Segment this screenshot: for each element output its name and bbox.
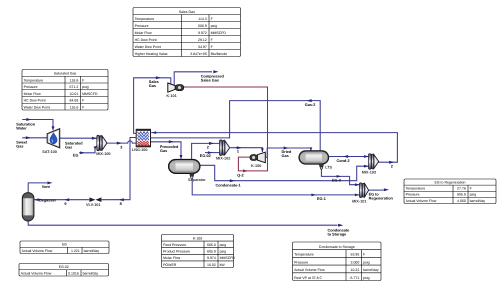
node EG-1 label (317, 197, 326, 201)
svg-text:Vent: Vent (42, 185, 51, 189)
wire: energy stream Q-2 loop K-100 to K-101 (184, 87, 268, 172)
svg-text:psig: psig (220, 243, 226, 247)
svg-text:EG-1: EG-1 (317, 197, 326, 201)
svg-text:Actual Volume Flow: Actual Volume Flow (21, 271, 52, 275)
svg-text:3.000: 3.000 (351, 260, 360, 264)
table EG-02 (19, 264, 109, 277)
svg-text:MIX-101: MIX-101 (352, 200, 366, 204)
svg-text:K-100: K-100 (193, 237, 202, 241)
svg-text:1.221: 1.221 (71, 249, 80, 253)
svg-text:605.9: 605.9 (457, 193, 466, 197)
node Condensate-1 label (216, 183, 241, 187)
table K-100 (162, 235, 236, 268)
wire: Saturated Gas from SAT-100 to MIX-100 (60, 137, 97, 140)
svg-text:Pressure: Pressure (24, 85, 38, 89)
table Condensate to Storage (293, 242, 382, 281)
wire: stream 1 MIX-102 to K-100 (230, 146, 264, 152)
svg-text:2: 2 (391, 164, 393, 168)
node Dried Gas label (282, 150, 292, 158)
table EG (20, 241, 109, 254)
node 1 label (237, 149, 239, 153)
svg-text:Condensate-1: Condensate-1 (216, 183, 241, 187)
node Compressed Sales Gas label (201, 74, 225, 82)
svg-text:Actual Volume Flow: Actual Volume Flow (22, 249, 53, 253)
svg-text:F: F (211, 45, 213, 49)
svg-text:Higher Heating Value: Higher Heating Value (135, 52, 168, 56)
node EG-02 label (200, 154, 211, 158)
node MIX-103 label (362, 170, 376, 174)
svg-text:8: 8 (120, 202, 122, 206)
wire: Gas-2 LTS top to LNG-100 cold inlet (long loop) (151, 99, 321, 150)
svg-text:psig: psig (82, 85, 88, 89)
svg-text:16.02: 16.02 (207, 263, 216, 267)
svg-text:Gas-2: Gas-2 (305, 103, 316, 107)
svg-text:to Storage: to Storage (328, 233, 347, 237)
node Precooled Gas label (160, 145, 179, 153)
svg-text:600.9: 600.9 (198, 24, 207, 28)
svg-text:Temperature: Temperature (24, 78, 44, 82)
wire: Cond-2 LTS to MIX-103 (329, 155, 369, 158)
svg-text:F: F (82, 105, 84, 109)
node MIX-101 label (352, 200, 366, 204)
svg-text:Water Dew Point: Water Dew Point (135, 45, 161, 49)
svg-text:Condensate to Storage: Condensate to Storage (319, 245, 355, 249)
mixer MIX-102 (220, 140, 230, 156)
svg-text:POWER: POWER (163, 263, 177, 267)
node Separator label (188, 178, 206, 182)
svg-text:Product Pressure: Product Pressure (163, 250, 190, 254)
svg-text:3: 3 (120, 146, 122, 150)
svg-text:Feed Pressure: Feed Pressure (163, 243, 186, 247)
svg-text:3.847e+05: 3.847e+05 (190, 52, 207, 56)
node MIX-100 label (96, 152, 110, 156)
svg-text:Saturated Gas: Saturated Gas (54, 72, 77, 76)
separator vessel (Separator) (169, 159, 201, 178)
svg-text:barrel/day: barrel/day (84, 249, 100, 253)
node EG to Regeneration label (369, 192, 394, 200)
node SAT-100 label (42, 150, 57, 154)
svg-text:Gas: Gas (16, 145, 23, 149)
svg-text:Molar Flow: Molar Flow (163, 256, 181, 260)
node K-100 label (251, 164, 261, 168)
wire: Sweet Gas feed stub into SAT-100 (22, 136, 47, 139)
svg-text:2: 2 (207, 145, 209, 149)
svg-text:Degasser: Degasser (39, 198, 57, 202)
svg-text:HC Dew Point: HC Dew Point (24, 99, 46, 103)
wire: stream 2 (mixed condensate) MIX-103 to LNG-100 cold inlet top (151, 131, 397, 164)
svg-text:27.76: 27.76 (457, 187, 466, 191)
svg-text:671.2: 671.2 (70, 85, 79, 89)
svg-text:84.69: 84.69 (70, 99, 79, 103)
svg-text:F: F (363, 253, 365, 257)
svg-text:Pressure: Pressure (406, 193, 420, 197)
svg-text:Gas: Gas (282, 154, 289, 158)
svg-text:Water: Water (16, 127, 27, 131)
svg-text:Q-2: Q-2 (237, 174, 243, 178)
svg-text:9.972: 9.972 (198, 31, 207, 35)
svg-text:Temperature: Temperature (294, 253, 314, 257)
node 3 label (120, 146, 122, 150)
wire: Sales Gas LNG-100 to K-101 (134, 76, 171, 133)
svg-text:9.974: 9.974 (207, 256, 216, 260)
svg-text:10.22: 10.22 (351, 268, 360, 272)
svg-text:MIX-103: MIX-103 (362, 170, 376, 174)
svg-text:F: F (211, 17, 213, 21)
degasser vessel (vertical) (22, 193, 34, 221)
node MIX-102 label (216, 156, 230, 160)
svg-text:barrel/day: barrel/day (470, 199, 486, 203)
svg-text:Actual Volume Flow: Actual Volume Flow (294, 268, 325, 272)
node 8 label (120, 202, 122, 206)
separator vessel LTS (299, 151, 329, 169)
svg-text:Water Dew Point: Water Dew Point (24, 105, 50, 109)
wire: Precooled Gas LNG-100 to Separator (151, 140, 183, 159)
svg-text:605.9: 605.9 (207, 250, 216, 254)
svg-text:116.6: 116.6 (70, 105, 79, 109)
wire: Vent outlet stub from Degasser (28, 181, 52, 192)
node EG label (73, 153, 79, 157)
table Sales Gas (133, 8, 241, 57)
wire: Compressed Sales Gas from K-101 (outlet stub) (174, 70, 218, 85)
svg-text:HC Dew Point: HC Dew Point (135, 38, 157, 42)
svg-text:1: 1 (237, 149, 239, 153)
saturator SAT-100 (47, 129, 60, 148)
wire: EG-3 LTS boot to MIX-101 (321, 168, 359, 187)
wire: stream 2 Separator vapour to MIX-102 (192, 142, 220, 159)
svg-text:Molar Flow: Molar Flow (24, 92, 42, 96)
svg-text:psig: psig (363, 260, 369, 264)
svg-text:psig: psig (220, 250, 226, 254)
svg-text:114.3: 114.3 (198, 17, 207, 21)
node Q-2 label (237, 174, 243, 178)
svg-text:0.1016: 0.1016 (68, 271, 79, 275)
node Gas-2 label (305, 103, 316, 107)
svg-text:barrel/day: barrel/day (83, 271, 99, 275)
svg-text:Pressure: Pressure (135, 24, 149, 28)
svg-text:MMSCFD: MMSCFD (82, 92, 98, 96)
mixer MIX-103 (369, 154, 379, 170)
svg-text:K-101: K-101 (166, 94, 176, 98)
wire: Condensate-1 Separator to MIX-103 (200, 165, 369, 182)
wire: Dried Gas K-100 to LTS (266, 147, 313, 158)
svg-text:Reid VP at 37.8 C: Reid VP at 37.8 C (294, 276, 322, 280)
svg-text:EG-3: EG-3 (332, 178, 341, 182)
node Vent label (42, 185, 51, 189)
svg-text:Temperature: Temperature (406, 187, 426, 191)
svg-text:10.01: 10.01 (70, 92, 79, 96)
node 9 label (64, 202, 66, 206)
svg-text:Molar Flow: Molar Flow (135, 31, 153, 35)
svg-text:MMSCFD: MMSCFD (211, 31, 227, 35)
node LNG-100 label (132, 148, 148, 152)
svg-text:MIX-102: MIX-102 (216, 156, 230, 160)
node Condensate to Storage label (328, 229, 350, 237)
svg-text:Sales Gas: Sales Gas (201, 78, 219, 82)
wire: EG-02 feed stub into MIX-102 (205, 151, 220, 154)
svg-text:psig: psig (211, 24, 217, 28)
svg-text:Pressure: Pressure (294, 260, 308, 264)
heat exchanger LNG-100 (136, 129, 150, 147)
svg-text:kW: kW (220, 263, 226, 267)
node Saturated Gas label (65, 142, 83, 150)
svg-text:34.97: 34.97 (198, 45, 207, 49)
table Saturated Gas (22, 70, 108, 111)
wire: EG feed stub into MIX-100 (79, 146, 97, 154)
svg-text:psig: psig (363, 276, 369, 280)
wire: Saturation Water feed stub into SAT-100 (22, 118, 54, 131)
svg-text:K-100: K-100 (251, 164, 261, 168)
svg-text:Gas: Gas (160, 149, 167, 153)
svg-text:F: F (82, 99, 84, 103)
wire: EG-1 Separator boot to MIX-101 (192, 176, 359, 196)
node Sales Gas label (149, 80, 159, 88)
wire: EG to Regeneration outlet stub from MIX-101 (368, 188, 389, 191)
node 2 label (separator vapour) (207, 145, 209, 149)
svg-text:Btu/lbmole: Btu/lbmole (211, 52, 228, 56)
svg-text:Regeneration: Regeneration (369, 196, 394, 200)
svg-text:LTS: LTS (325, 165, 332, 169)
wire: Condensate to Storage from Degasser bottom (28, 221, 343, 227)
svg-text:666.0: 666.0 (207, 243, 216, 247)
node 2 label at MIX-103 outlet (391, 164, 393, 168)
svg-text:Sales Gas: Sales Gas (179, 10, 195, 14)
svg-text:EG: EG (73, 153, 79, 157)
svg-text:29.12: 29.12 (198, 38, 207, 42)
svg-text:SAT-100: SAT-100 (42, 150, 57, 154)
svg-text:F: F (470, 187, 472, 191)
svg-text:F: F (82, 78, 84, 82)
svg-text:116.6: 116.6 (70, 78, 79, 82)
svg-text:Cond-2: Cond-2 (337, 159, 350, 163)
svg-text:Gas: Gas (149, 84, 156, 88)
svg-text:VLV-101: VLV-101 (86, 203, 101, 207)
node EG-3 label (332, 178, 341, 182)
node Sweet Gas label (16, 141, 28, 149)
svg-text:EG-02: EG-02 (200, 154, 211, 158)
svg-text:Gas: Gas (65, 146, 72, 150)
node Degasser label (39, 198, 57, 202)
svg-text:-5.771: -5.771 (349, 276, 359, 280)
node LTS label (325, 165, 332, 169)
wire: stream 3 MIX-100 to LNG-100 hot inlet (107, 141, 136, 145)
node K-101 label (166, 94, 176, 98)
svg-text:9: 9 (64, 202, 66, 206)
svg-text:Actual Volume Flow: Actual Volume Flow (406, 199, 437, 203)
svg-text:barrel/day: barrel/day (363, 268, 379, 272)
node Cond-2 label (337, 159, 350, 163)
svg-text:LNG-100: LNG-100 (132, 148, 148, 152)
node VLV-101 label (86, 203, 101, 207)
svg-text:Temperature: Temperature (135, 17, 155, 21)
svg-text:63.95: 63.95 (351, 253, 360, 257)
expander K-100 (250, 152, 265, 163)
svg-text:Separator: Separator (188, 178, 206, 182)
compressor K-101 (168, 83, 184, 92)
svg-text:MMSCFD: MMSCFD (220, 256, 236, 260)
svg-text:EG-02: EG-02 (59, 265, 69, 269)
svg-text:F: F (211, 38, 213, 42)
svg-text:4.660: 4.660 (457, 199, 466, 203)
svg-text:EG to Regeneration: EG to Regeneration (435, 181, 466, 185)
svg-text:psig: psig (470, 193, 476, 197)
mixer MIX-101 (359, 183, 368, 198)
valve VLV-101 (89, 197, 101, 202)
svg-text:MIX-100: MIX-100 (96, 152, 110, 156)
svg-text:EG: EG (62, 243, 67, 247)
mixer MIX-100 (97, 135, 107, 151)
node Saturation Water label (16, 123, 35, 131)
wire: warm condensate LNG-100 to VLV-101 to Degasser (34, 138, 136, 202)
table EG to Regeneration (404, 179, 496, 204)
